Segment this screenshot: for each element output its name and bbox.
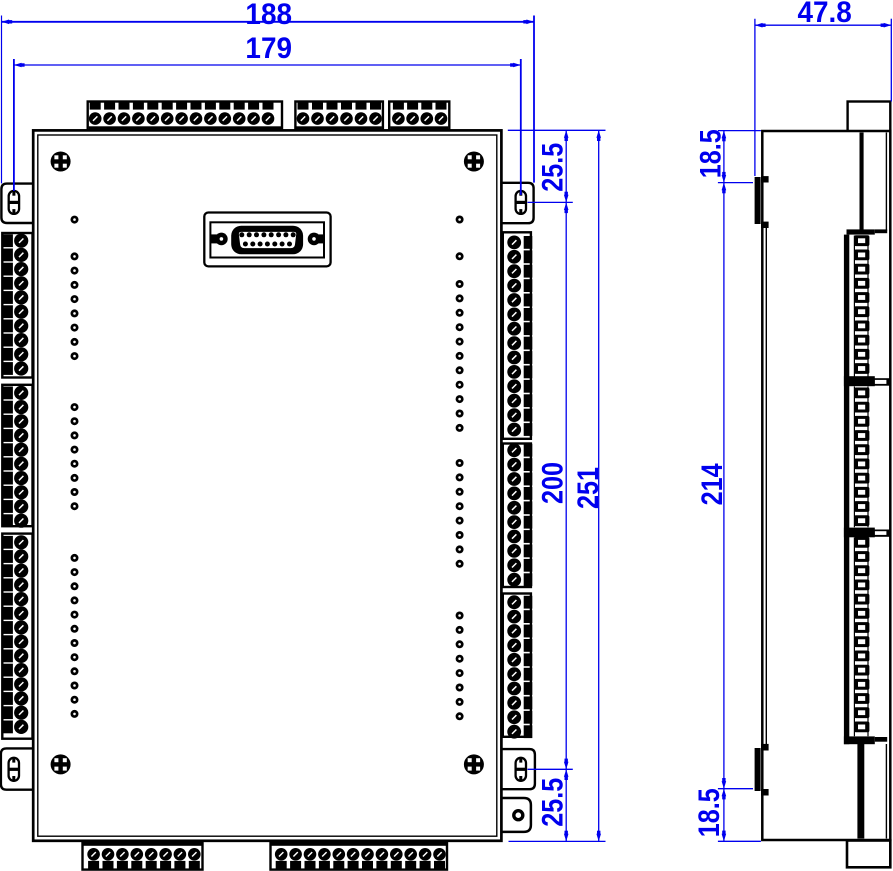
hole column right — [456, 216, 464, 721]
dimension 47.8 extension lines — [755, 19, 891, 176]
corner screw bottom-right — [464, 754, 484, 774]
dimension label 200 — [535, 462, 569, 504]
terminal strip TB-left-B (10 positions) — [2, 385, 32, 528]
dimension label 214 — [695, 463, 729, 506]
DIN-rail clip bottom — [755, 744, 769, 796]
svg-text:200: 200 — [535, 462, 569, 504]
side view terminal divider 1 — [844, 376, 890, 386]
terminal block TB-bottom-2 (12 positions) — [271, 840, 448, 869]
terminal block TB-bottom-1 (8 positions) — [83, 840, 203, 869]
dimension 214 line with arrows — [722, 183, 727, 789]
side view bottom terminal block tab — [847, 841, 890, 868]
side view left inner edge line — [765, 225, 767, 744]
dimension 18.5 top line with arrows — [722, 131, 727, 183]
side view enclosure body outline — [762, 131, 890, 840]
side view upper interior channel — [860, 133, 887, 232]
dimension 251 line with arrows — [596, 130, 601, 841]
dimension label 251 — [571, 467, 605, 509]
corner screw top-left — [51, 152, 71, 172]
terminal strip TB-left-A (10 positions) — [2, 233, 32, 378]
svg-text:18.5: 18.5 — [693, 129, 727, 178]
dimension 47.8 line with arrows — [755, 23, 891, 28]
dimension 25.5 top line with arrows — [564, 130, 569, 202]
dimension 179 line with arrows — [14, 63, 521, 68]
dimension 25.5 bottom line with arrows — [564, 769, 569, 841]
svg-text:179: 179 — [245, 32, 292, 65]
terminal block TB-top-3 (4 positions) — [389, 102, 449, 131]
svg-text:188: 188 — [245, 0, 292, 31]
corner screw top-right — [464, 152, 484, 172]
mounting tab bottom-left — [1, 748, 33, 789]
terminal block TB-top-1 (13 positions) — [88, 102, 282, 131]
mounting tab bottom-right — [502, 749, 535, 789]
side view terminal housing bottom cap — [844, 736, 887, 744]
terminal block TB-top-2 (6 positions) — [295, 102, 383, 131]
dimension 18.5 bottom line with arrows — [722, 789, 727, 842]
dimension label 18.5 top — [693, 129, 727, 178]
dimension label 179 — [245, 32, 292, 65]
mounting tab top-left — [1, 184, 33, 223]
grounding lug tab bottom-right with hole — [502, 798, 531, 832]
dimension label 25.5 top — [535, 143, 569, 192]
side view terminal housing top cap — [847, 229, 888, 234]
hole column left — [71, 216, 79, 718]
side view terminal squares section B — [854, 387, 869, 528]
svg-text:25.5: 25.5 — [535, 778, 569, 827]
side view lower interior channel — [857, 744, 886, 839]
side view terminal squares section A — [854, 235, 869, 376]
terminal strip TB-left-C (14 positions) — [2, 534, 32, 739]
dimension 188 line with arrows — [2, 20, 535, 25]
terminal strip TB-right-2 (10 positions) — [503, 443, 533, 587]
dimension 179 extension lines — [14, 59, 521, 195]
terminal strip TB-right-1 (14 positions) — [503, 232, 533, 438]
dimension 200 line with arrows — [564, 202, 569, 769]
side view terminal divider 2 — [844, 528, 890, 538]
side view top terminal block tab — [848, 102, 891, 132]
terminal strip TB-right-3 (10 positions) — [503, 594, 533, 739]
svg-text:251: 251 — [571, 467, 605, 509]
side view terminal squares section C — [854, 537, 869, 736]
mounting tab top-right — [502, 183, 534, 223]
right side horizontal extension lines — [508, 130, 606, 841]
svg-text:18.5: 18.5 — [692, 788, 726, 837]
side view terminal housing left wall — [844, 235, 849, 745]
svg-text:47.8: 47.8 — [797, 0, 851, 29]
dimension 188 extension lines — [2, 16, 535, 184]
dimension label 188 — [245, 0, 292, 31]
DB15 connector J1 — [204, 213, 330, 267]
svg-text:214: 214 — [695, 463, 729, 506]
side view horizontal extension lines — [718, 131, 761, 842]
dimension label 18.5 bottom — [692, 788, 726, 837]
front view enclosure body outline — [33, 130, 501, 840]
dimension label 25.5 bottom — [535, 778, 569, 827]
corner screw bottom-left — [51, 754, 71, 774]
DIN-rail clip top — [755, 176, 769, 228]
dimension label 47.8 — [797, 0, 851, 29]
svg-text:25.5: 25.5 — [535, 143, 569, 192]
